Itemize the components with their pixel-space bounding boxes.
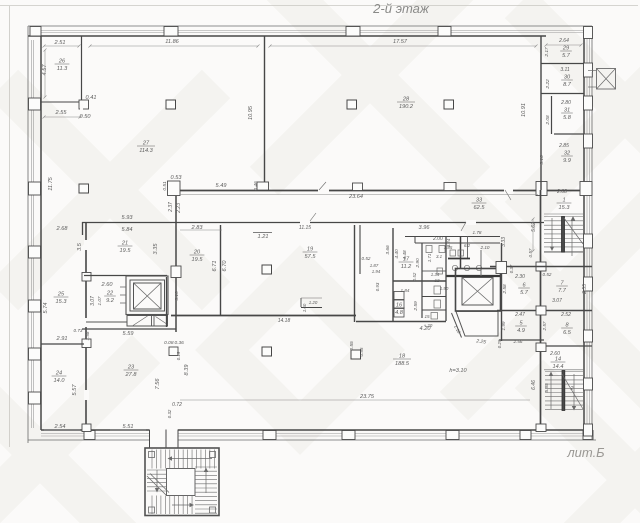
scan frame left [9,6,11,447]
svg-text:2.91: 2.91 [56,336,68,342]
stair2 stringer [562,371,565,411]
room 19 label [303,247,318,261]
dim line 2.54 [44,429,80,431]
dim line 4.57 [44,50,46,97]
svg-text:2.90: 2.90 [415,258,421,269]
svg-text:9.9: 9.9 [563,158,571,164]
outer right wall glazing [586,36,588,430]
svg-text:0.50: 0.50 [80,114,92,120]
svg-text:5.49: 5.49 [216,183,227,189]
pier divider base [257,182,269,191]
wc wall x446 [445,237,447,322]
room 14 label [551,357,566,371]
svg-text:5.74: 5.74 [43,303,49,314]
svg-text:0.52: 0.52 [543,272,552,277]
svg-text:2.60: 2.60 [101,282,114,288]
svg-text:2.51: 2.51 [54,40,66,46]
svg-text:190.2: 190.2 [399,104,414,110]
stair2 top landing line [544,369,584,371]
svg-text:5.7: 5.7 [520,290,529,296]
wc wall y258 dark [448,258,470,260]
annex treads top [151,450,153,469]
svg-text:10.91: 10.91 [521,103,527,117]
svg-text:3.10: 3.10 [174,291,180,301]
pier x86 c [82,339,91,348]
wc stalls [394,292,404,300]
elevator2 X [462,278,493,306]
door gap room26 [80,104,83,113]
pier room26 corner [79,100,89,109]
svg-text:57.5: 57.5 [305,254,317,260]
svg-text:5.85: 5.85 [544,383,550,393]
stair2 treads [545,371,583,373]
svg-text:5.57: 5.57 [72,384,78,396]
annex arrow bottom [172,504,192,506]
wc wall y296 [422,296,446,298]
svg-text:21: 21 [121,241,128,247]
svg-text:6.71: 6.71 [212,261,218,272]
svg-text:1.78: 1.78 [473,230,482,235]
stair1 stringer [562,217,565,253]
wall x86 doorgap2 [84,318,89,327]
svg-text:11.2: 11.2 [401,264,412,270]
room 20 label [190,250,205,264]
dim line 2.83 [180,229,222,231]
svg-text:2.54: 2.54 [54,424,66,430]
svg-text:0.52: 0.52 [362,256,371,261]
column below x176 [169,347,178,356]
wc wall x415 [414,237,416,244]
pier corridor mid1 [353,183,363,191]
corridor lower wall [82,222,544,224]
svg-text:62.5: 62.5 [474,205,486,211]
pier corridor junction [168,181,181,196]
wall x86 doorgap1 [84,240,89,250]
wall x393 vertical [392,228,394,322]
right wall pier 4 [584,134,593,148]
svg-text:10.95: 10.95 [248,105,254,120]
room 30 label [561,75,573,89]
svg-text:3.11: 3.11 [560,67,570,73]
svg-text:1.21: 1.21 [258,234,269,240]
svg-text:2.30: 2.30 [514,274,525,280]
room 33 label [472,198,487,212]
svg-text:7.7: 7.7 [558,288,567,294]
wc fixtures row [426,246,432,253]
room23 top wall [82,328,176,330]
pier x540 a [536,262,546,271]
annex corner marks [149,452,155,458]
bottom wall annex opening [149,429,178,441]
annex vestibule walls [149,430,151,449]
svg-text:14.18: 14.18 [278,318,291,324]
svg-text:3.24: 3.24 [446,238,451,247]
wall x354 vertical [354,225,356,322]
column 5 [262,265,272,274]
left wall pier 5 [29,348,41,360]
svg-text:2.17: 2.17 [544,47,550,58]
svg-text:3.35: 3.35 [153,243,159,255]
svg-text:114.3: 114.3 [139,148,153,154]
wc wall x422 [421,243,423,318]
annex landing square [167,469,196,496]
svg-text:25: 25 [57,292,65,298]
room 17 label [399,257,414,271]
room 31 label [561,108,573,122]
stair1 treads [544,216,583,218]
wc wall y310 [422,309,446,311]
elevator2 shaft outer [456,269,501,312]
svg-text:0.41: 0.41 [86,95,97,101]
svg-text:0.57: 0.57 [528,248,533,257]
right wall pier 1 [584,27,593,39]
svg-text:2-й этаж: 2-й этаж [372,1,430,16]
svg-text:31: 31 [564,108,570,114]
pier corridor right1 [536,182,547,196]
stair1 bottom wall [490,266,592,268]
svg-text:2.57: 2.57 [542,321,547,331]
pier x86 b [82,273,91,282]
svg-text:3.07: 3.07 [90,296,96,306]
stair1 arrow up [571,219,573,256]
right wall pier 2 [584,63,593,77]
svg-text:1.87: 1.87 [370,263,379,268]
svg-text:2.55: 2.55 [55,110,68,116]
svg-text:0.55: 0.55 [349,341,355,351]
right wall pier 6 [584,277,593,291]
left wall pier 4 [29,300,41,312]
wall room25 bottom [41,343,84,345]
svg-text:22: 22 [106,291,114,297]
elevator2 cab [462,278,493,306]
elevator1 shaft mid [130,280,165,311]
svg-text:6.2: 6.2 [464,243,471,248]
svg-text:1.07: 1.07 [97,296,102,305]
svg-text:32: 32 [564,151,571,157]
wc wall x481 [480,250,482,276]
svg-text:24: 24 [55,371,62,377]
svg-text:2.55: 2.55 [582,284,588,295]
elevator1 rungs [120,286,126,288]
left wall pier 6 [29,392,41,404]
svg-text:0.37: 0.37 [509,264,514,273]
stair2 diagonal [562,374,583,409]
svg-text:3.07: 3.07 [552,298,562,304]
bottom wall pier 2 [263,431,276,440]
wall room26 bottom [41,101,88,103]
svg-text:29: 29 [562,46,569,52]
wall y315 long [171,315,356,317]
wall y346 room8 [537,345,592,347]
elevator1 shaft outer [126,276,168,315]
pier x540 e [536,424,546,432]
outer right wall inner line [583,29,585,430]
corridor lower wall doorgap3 [466,220,476,225]
svg-text:0.51: 0.51 [162,181,168,191]
wc wall x467 [467,237,469,259]
room 25 label [54,292,69,306]
wall y310 long [497,310,592,312]
elevator1 cab [134,283,162,309]
dim line 5.51 [110,429,146,431]
svg-text:1.71: 1.71 [427,253,432,262]
svg-text:11.15: 11.15 [299,225,311,231]
scan frame top [0,5,638,7]
pier x86 d [82,424,91,432]
column 1 [166,100,176,109]
balcony box [597,69,616,90]
svg-text:2.83: 2.83 [191,225,204,231]
wc wall y243 [415,242,500,244]
svg-text:1.99: 1.99 [501,321,506,330]
svg-text:19: 19 [307,247,313,253]
wc top wall [405,236,500,238]
svg-text:14.0: 14.0 [54,378,66,384]
bottom wall pier 4 [446,431,459,440]
svg-text:2: 2 [570,386,574,392]
column 3 [347,100,357,109]
room 28 label [397,97,415,111]
svg-text:1.84: 1.84 [401,288,410,293]
svg-text:4.9: 4.9 [517,328,525,334]
trapezoid lobby [456,312,498,337]
svg-text:4.40: 4.40 [394,249,400,259]
elevator1 machine slot [127,316,168,327]
svg-text:188.5: 188.5 [395,361,410,367]
svg-text:2.56: 2.56 [513,339,523,344]
top wall pier 3 [346,27,360,37]
svg-text:2.59: 2.59 [413,301,419,312]
dim line 23.75 [180,399,530,401]
corridor upper doorgap [504,188,513,193]
outer left wall inner line [40,36,42,430]
right wall pier 3 [584,96,593,110]
svg-text:5.93: 5.93 [122,215,134,221]
svg-text:0.32: 0.32 [167,409,172,418]
annex arrow left [156,470,158,490]
pier x540 b [536,306,546,315]
dim line top 17.57 [269,45,538,48]
svg-text:2.68: 2.68 [56,226,69,232]
wall y321 segment [356,321,446,323]
annex arrow top [170,458,212,460]
right wall pier 7 [584,330,593,342]
partition bracket 1.20 [301,307,322,309]
pier x176 mid [171,266,181,278]
stair2 arrow up [550,374,552,409]
svg-text:27: 27 [142,141,150,147]
room29 floor [541,63,584,65]
svg-text:7.56: 7.56 [155,378,161,390]
wall x360 vertical [359,225,361,274]
corridor upper wall [168,190,592,192]
svg-text:0.53: 0.53 [171,175,183,181]
wc wall y271 [422,270,446,272]
right wall pier 5 [584,234,593,248]
room 18 label [393,354,411,368]
corridor lower wall doorgap2 [300,220,310,225]
room31 floor [554,133,584,135]
room 27 label [137,141,155,155]
room 5 label [515,321,527,335]
room 16 label [393,303,405,317]
svg-text:2.37: 2.37 [168,202,174,213]
svg-text:27.8: 27.8 [125,372,138,378]
room 32 label [561,151,573,165]
svg-text:1.94: 1.94 [372,269,381,274]
svg-text:1.60: 1.60 [302,303,307,312]
dim line top 11.86 [89,45,260,48]
wall x501 vertical [501,243,503,341]
svg-text:5.59: 5.59 [123,331,134,337]
stair2 arrow down [573,374,575,407]
room 26 label [55,59,70,73]
svg-text:3.66: 3.66 [385,245,391,255]
svg-text:23.64: 23.64 [348,194,363,200]
svg-text:2.22: 2.22 [545,79,551,90]
door swing 4 [505,190,511,200]
pier corridor mid2 [444,183,456,191]
svg-text:19.5: 19.5 [192,257,204,263]
corridor upper doorgap2 [318,188,329,193]
svg-text:8.7: 8.7 [563,82,572,88]
corridor lower wall corner [82,222,84,235]
outer right wall outer line [591,26,593,440]
door swing 2 [310,213,316,221]
svg-text:h=3.10: h=3.10 [449,368,467,374]
dim line 23.64 [180,194,538,196]
svg-text:2.10: 2.10 [480,245,490,250]
svg-text:23.75: 23.75 [359,394,375,400]
trapezoid outer slant [452,313,462,338]
pier x540 c [536,343,546,352]
room 7 label [556,281,568,295]
column 6 [262,347,272,356]
wall x86 doorgap3 [84,390,89,400]
svg-text:лит.Б: лит.Б [566,445,605,460]
svg-text:16: 16 [396,303,403,309]
svg-text:17.57: 17.57 [393,39,408,45]
bottom wall pier 6 [583,431,593,440]
svg-text:2.23: 2.23 [176,203,182,214]
room30 floor [541,93,584,95]
svg-text:15.3: 15.3 [559,205,571,211]
stair1 arrow down [551,218,553,248]
column 2 [79,184,89,193]
top wall pier 4 [438,27,451,37]
room 24 label [52,371,67,385]
svg-text:3.1: 3.1 [436,254,443,259]
door swing 5 [319,182,326,190]
svg-text:1.58: 1.58 [85,331,90,340]
wall x176 vertical [175,196,177,332]
right wall pier 9 [584,424,593,436]
svg-text:+ 20: + 20 [424,323,433,328]
svg-text:6.70: 6.70 [222,260,228,272]
svg-text:1.90: 1.90 [440,286,449,291]
svg-text:8.39: 8.39 [184,365,190,376]
svg-text:9.2: 9.2 [106,298,115,304]
left wall pier 2 [29,182,41,195]
svg-text:5.7: 5.7 [562,53,571,59]
svg-text:5.62: 5.62 [531,222,537,232]
outer top wall outer line [28,25,592,27]
wall x554 section [551,96,553,134]
room22 bottom wall [86,321,127,323]
annex treads bottom [151,496,153,515]
svg-text:2.64: 2.64 [558,38,569,44]
svg-text:28: 28 [402,97,410,103]
svg-text:4.8: 4.8 [395,310,404,316]
svg-text:2.52: 2.52 [560,312,571,318]
svg-text:3.33: 3.33 [501,237,507,247]
left wall pier 1 [29,98,41,110]
svg-text:6.46: 6.46 [531,380,537,390]
dim line 2.64 [545,44,583,47]
balcony links [588,70,597,72]
svg-text:19.5: 19.5 [120,248,132,254]
outer bottom wall glazing [41,433,592,435]
svg-text:30: 30 [564,75,571,81]
svg-text:14.4: 14.4 [553,364,564,370]
svg-text:2.00: 2.00 [432,236,443,242]
room 29 label [560,46,572,60]
bottom wall pier 3 [342,431,355,440]
svg-text:23: 23 [127,365,135,371]
svg-text:33: 33 [476,198,483,204]
svg-text:3.5: 3.5 [77,242,83,251]
svg-text:2.85: 2.85 [558,143,569,149]
svg-text:26: 26 [58,59,66,65]
annex treads right [195,466,217,468]
bottom wall pier 5 [520,431,531,440]
wall room26 right [81,36,83,104]
svg-text:1.20: 1.20 [309,300,318,305]
svg-text:11.86: 11.86 [165,39,179,45]
svg-text:12: 12 [435,278,440,283]
room 6 label [518,283,530,297]
svg-text:1.34: 1.34 [431,272,440,277]
room22 top wall [84,275,167,277]
annex diagonal [147,476,166,495]
wall x220 vertical [220,225,222,315]
wc toilets [434,286,441,294]
top wall pier 1 [30,27,41,37]
wall x167 segment [166,277,168,327]
column 4 [444,100,454,109]
svg-text:4.48: 4.48 [402,250,408,260]
left wall pier 3 [29,246,41,258]
door swing 3 [461,222,466,231]
top wall pier 2 [164,27,178,37]
svg-text:0.46: 0.46 [253,181,259,191]
room 21 label [118,241,133,255]
svg-text:15: 15 [424,314,430,319]
outer bottom wall inner line [41,429,584,431]
svg-text:3.96: 3.96 [419,225,431,231]
pier corridor right2 [580,182,592,196]
room 22 label [104,291,116,305]
annex treads left [147,469,167,471]
svg-text:15.3: 15.3 [56,299,68,305]
svg-text:5.8: 5.8 [563,115,572,121]
balcony X [597,69,616,90]
wc wall x460 dark [460,237,462,269]
svg-text:5.84: 5.84 [122,227,133,233]
wall x540 vertical [540,190,542,430]
right wall pier 8 [584,378,593,390]
outer left wall glazing [31,40,33,428]
